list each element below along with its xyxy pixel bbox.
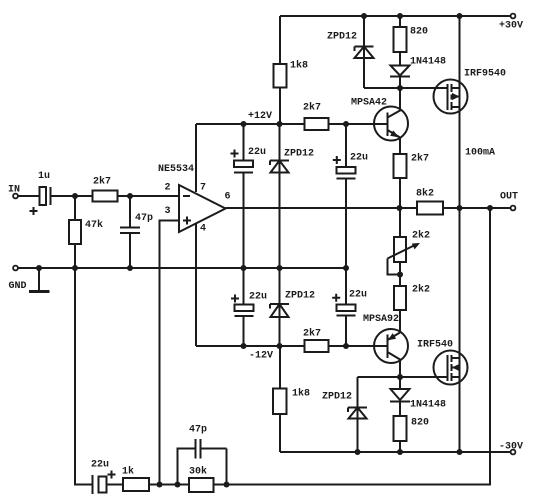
node fb 47p right <box>224 482 230 488</box>
node out feedback <box>487 205 493 211</box>
svg-text:+12V: +12V <box>248 111 272 122</box>
svg-text:2k2: 2k2 <box>412 230 430 242</box>
capacitor 22u C6 (lower right) <box>332 290 367 347</box>
wire feedback row <box>149 484 189 486</box>
node +12V 22u <box>241 121 247 127</box>
capacitor 22u C7 (feedback) <box>91 460 123 495</box>
svg-text:2k7: 2k7 <box>411 153 429 165</box>
node rail bottom mosfet <box>457 449 463 455</box>
svg-text:1N4148: 1N4148 <box>410 57 446 68</box>
svg-text:7: 7 <box>200 183 206 194</box>
node gate top <box>397 85 403 91</box>
resistor 30k <box>189 466 214 493</box>
node rail top zener <box>361 13 367 19</box>
resistor 2k2 <box>394 284 430 333</box>
resistor 1k8 (bottom) <box>273 388 310 415</box>
ground <box>29 268 50 292</box>
wire feedback row right <box>214 208 491 485</box>
zener ZPD12 Z2 (+12V) <box>270 124 314 346</box>
terminal OUT <box>500 192 518 211</box>
resistor 2k7 (-12V row) <box>303 328 329 353</box>
svg-text:22u: 22u <box>349 290 367 301</box>
node -12V 22u right <box>343 343 349 349</box>
wire pin 4 <box>195 223 197 346</box>
svg-text:IN: IN <box>8 185 20 196</box>
wire input <box>18 195 39 197</box>
node gnd 47p <box>127 265 133 271</box>
svg-text:22u: 22u <box>248 147 266 158</box>
terminal IN <box>8 185 20 199</box>
wire 1k8 bottom column <box>279 346 281 452</box>
wire output row <box>226 207 511 209</box>
svg-text:100mA: 100mA <box>465 148 495 159</box>
terminal +30V <box>499 14 523 32</box>
svg-text:ZPD12: ZPD12 <box>322 392 352 403</box>
svg-text:1N4148: 1N4148 <box>410 400 446 411</box>
resistor 8k2 <box>416 188 443 215</box>
svg-text:820: 820 <box>411 418 429 429</box>
svg-text:+30V: +30V <box>499 21 523 32</box>
svg-text:1u: 1u <box>38 171 50 182</box>
resistor 2k7 (Q1 emitter) <box>394 153 430 209</box>
node gnd 22u left <box>241 265 247 271</box>
node gnd 22u right <box>343 265 349 271</box>
capacitor 22u C3 (upper right) <box>333 124 368 305</box>
svg-text:NE5534: NE5534 <box>158 164 194 175</box>
svg-text:820: 820 <box>410 27 428 38</box>
svg-text:22u: 22u <box>350 153 368 164</box>
svg-text:GND: GND <box>9 281 27 292</box>
diode 1N4148 (top) <box>390 57 446 89</box>
zener ZPD12 Z3 (-12V) <box>270 291 315 318</box>
node rail bottom zener <box>355 449 361 455</box>
terminal -30V <box>499 442 523 455</box>
svg-text:ZPD12: ZPD12 <box>284 149 314 160</box>
terminal GND <box>9 266 27 292</box>
transistor Q2 MPSA92 <box>363 314 408 377</box>
svg-text:-30V: -30V <box>499 442 523 453</box>
node out 2k7 <box>397 205 403 211</box>
diode 1N4148 (bottom) <box>390 377 446 416</box>
node gnd 47k <box>72 265 78 271</box>
node input 47p <box>127 193 133 199</box>
wire 1k8 top column <box>279 16 281 124</box>
svg-text:MPSA42: MPSA42 <box>351 98 387 109</box>
svg-text:IRF540: IRF540 <box>417 340 453 351</box>
capacitor 1u (input) <box>30 171 93 215</box>
svg-text:3: 3 <box>165 206 171 217</box>
node -12V zener <box>277 343 283 349</box>
resistor 820 (top) <box>394 16 429 66</box>
svg-text:8k2: 8k2 <box>416 188 434 200</box>
wire pin 3 <box>160 221 180 485</box>
node trimmer wiper <box>397 272 403 278</box>
wire pin 7 <box>195 124 197 192</box>
node rail mosfet <box>457 13 463 19</box>
node rail bottom 820 <box>397 449 403 455</box>
resistor 1k <box>122 466 149 492</box>
svg-text:30k: 30k <box>189 466 207 478</box>
node +12V zener <box>277 121 283 127</box>
node +12V 22u right <box>343 121 349 127</box>
wire top gate row <box>364 87 448 89</box>
svg-text:2k2: 2k2 <box>412 284 430 296</box>
wire mosfet drain-source column <box>460 16 496 452</box>
svg-text:OUT: OUT <box>500 192 518 203</box>
node fb pin3 <box>157 482 163 488</box>
capacitor 22u C5 (lower left) <box>231 292 267 347</box>
svg-text:IRF9540: IRF9540 <box>464 69 506 80</box>
svg-text:2: 2 <box>165 183 171 194</box>
svg-text:ZPD12: ZPD12 <box>327 32 357 43</box>
wire -12V row <box>196 346 387 362</box>
capacitor 22u C2 (upper left) <box>231 124 267 305</box>
node input 47k <box>72 193 78 199</box>
resistor 2k7 (+12V row) <box>303 102 329 131</box>
node -12V 22u <box>241 343 247 349</box>
node gnd sym <box>36 265 42 271</box>
svg-text:22u: 22u <box>249 292 267 303</box>
svg-text:2k7: 2k7 <box>303 328 321 340</box>
wire to pin 2 <box>118 195 180 197</box>
svg-text:47p: 47p <box>189 425 207 436</box>
svg-text:2k7: 2k7 <box>303 102 321 114</box>
node fb 47p left <box>175 482 181 488</box>
svg-text:1k: 1k <box>122 466 134 478</box>
node gnd zener <box>277 265 283 271</box>
svg-text:2k7: 2k7 <box>93 176 111 188</box>
svg-text:47k: 47k <box>85 219 103 231</box>
wire bottom gate row <box>358 376 448 378</box>
transistor Q1 MPSA42 <box>351 88 408 154</box>
zener ZPD12 Z4 (bottom) <box>322 377 367 452</box>
svg-text:MPSA92: MPSA92 <box>363 314 399 325</box>
wire +30V rail <box>280 15 511 17</box>
zener ZPD12 Z1 (top) <box>327 16 374 88</box>
resistor 820 (bottom) <box>394 416 430 452</box>
capacitor 47p (feedback) <box>178 425 227 485</box>
capacitor 47p (top) <box>120 196 153 268</box>
svg-text:47p: 47p <box>135 213 153 224</box>
mosfet IRF540 <box>417 340 468 385</box>
trimmer 2k2 <box>388 208 431 286</box>
node rail 820 <box>397 13 403 19</box>
svg-text:1k8: 1k8 <box>292 388 310 400</box>
mosfet IRF9540 <box>434 69 507 114</box>
svg-text:6: 6 <box>225 192 231 203</box>
node out mosfet <box>457 205 463 211</box>
wire -30V rail <box>280 451 511 453</box>
wire feedback left column <box>75 268 92 485</box>
svg-text:ZPD12: ZPD12 <box>285 291 315 302</box>
resistor 1k8 (top) <box>274 60 309 88</box>
resistor 2k7 (input) <box>93 176 118 202</box>
resistor 47k <box>69 196 103 268</box>
svg-text:22u: 22u <box>91 460 109 471</box>
node gate bottom <box>397 374 403 380</box>
svg-text:-12V: -12V <box>249 351 273 362</box>
wire +12V row <box>196 111 387 124</box>
op-amp U1 NE5534 <box>158 164 231 235</box>
svg-text:1k8: 1k8 <box>290 60 308 72</box>
wire GND row <box>18 267 346 269</box>
svg-text:4: 4 <box>200 224 206 235</box>
